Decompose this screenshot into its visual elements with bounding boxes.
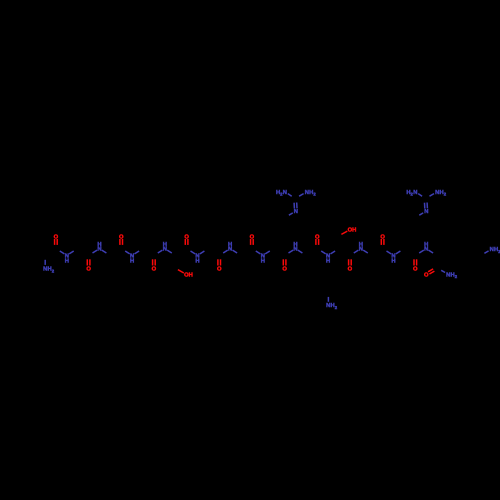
amide N5 (N-H) <box>191 251 205 265</box>
C-terminal amide NH2 <box>441 270 458 279</box>
svg-text:H: H <box>326 259 330 265</box>
serine side-chain OH <box>178 270 193 279</box>
amide N11 (N-H) <box>387 251 401 265</box>
svg-text:H: H <box>65 259 69 265</box>
amide N8 (N-H) <box>289 242 303 253</box>
svg-text:H: H <box>352 228 356 234</box>
amide N3 (N-H) <box>125 251 139 265</box>
amide N1 (N-H) <box>60 251 74 265</box>
amide N9 (N-H) <box>321 251 335 265</box>
carbonyl O11 (C=O) <box>380 233 385 245</box>
svg-text:H: H <box>359 242 363 248</box>
carbonyl O4 (C=O) <box>152 259 157 272</box>
carbonyl O8 (C=O) <box>282 259 287 272</box>
svg-text:N: N <box>413 190 417 196</box>
arginine-1 guanidinium (H2N, NH2, =N) <box>276 190 316 215</box>
svg-text:H: H <box>163 242 167 248</box>
carbonyl O6 (C=O) <box>217 259 222 272</box>
svg-text:H: H <box>97 242 101 248</box>
svg-text:H: H <box>424 242 428 248</box>
svg-text:O: O <box>217 265 222 272</box>
carbonyl O3 (C=O) <box>119 233 124 245</box>
svg-text:H: H <box>189 273 193 279</box>
carbonyl O9 (C=O) <box>315 233 320 245</box>
lysine-2 side-chain NH2 <box>484 247 500 254</box>
carbonyl O5 (C=O) <box>184 233 189 245</box>
svg-text:H: H <box>228 242 232 248</box>
C-terminal amide O <box>424 269 434 278</box>
svg-text:H: H <box>261 259 265 265</box>
N-terminal amine NH2 <box>43 260 55 274</box>
amide N2 (N-H) <box>93 242 107 253</box>
svg-text:O: O <box>152 265 157 272</box>
arginine-2 guanidinium (H2N, NH2, =N) <box>406 190 446 215</box>
carbonyl O10 (C=O) <box>348 259 353 272</box>
svg-text:H: H <box>195 259 199 265</box>
svg-text:O: O <box>424 271 429 278</box>
svg-text:O: O <box>348 265 353 272</box>
svg-text:N: N <box>294 209 298 215</box>
svg-text:H: H <box>391 259 395 265</box>
svg-text:N: N <box>424 209 428 215</box>
carbonyl O7 (C=O) <box>250 233 255 245</box>
amide N6 (N-H) <box>223 242 237 253</box>
carbonyl O2 (C=O) <box>86 259 91 272</box>
carbonyl O12 (C=O) <box>413 259 418 272</box>
lysine-1 side-chain NH2 <box>326 297 338 310</box>
svg-text:O: O <box>282 265 287 272</box>
amide N12 (N-H) <box>419 242 433 253</box>
amide N10 (N-H) <box>354 242 368 253</box>
svg-text:O: O <box>86 265 91 272</box>
svg-text:N: N <box>283 190 287 196</box>
threonine side-chain OH <box>341 227 356 235</box>
svg-text:H: H <box>130 259 134 265</box>
carbonyl O1 (C=O) <box>54 233 59 245</box>
svg-text:H: H <box>293 242 297 248</box>
amide N4 (N-H) <box>158 242 172 253</box>
amide N7 (N-H) <box>256 251 270 265</box>
svg-text:O: O <box>413 265 418 272</box>
